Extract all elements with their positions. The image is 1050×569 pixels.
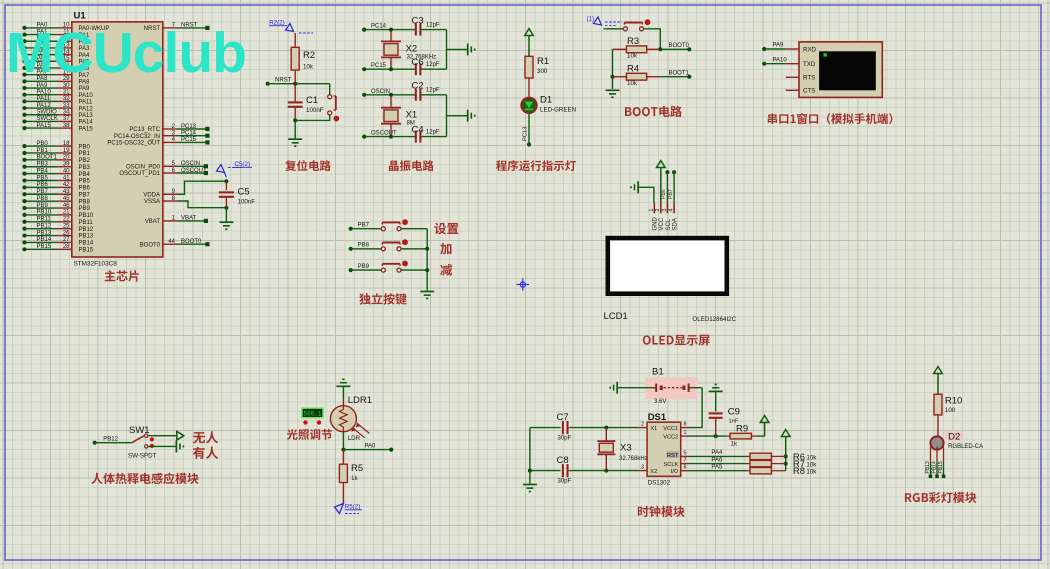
svg-text:19: 19 (63, 148, 70, 154)
svg-text:PB4: PB4 (79, 172, 91, 178)
resistor R10 100 (934, 394, 962, 415)
svg-text:10k: 10k (806, 454, 817, 461)
svg-text:PC13_RTC: PC13_RTC (129, 127, 160, 133)
label 减 (440, 264, 452, 276)
svg-text:PA12: PA12 (37, 103, 52, 109)
svg-text:CTS: CTS (803, 88, 815, 95)
svg-text:30pF: 30pF (558, 479, 572, 485)
svg-text:R1: R1 (537, 56, 549, 67)
wire keys ground rail (425, 229, 429, 291)
crystal X2 32.768KHz (381, 28, 436, 72)
svg-text:(1): (1) (587, 16, 595, 23)
svg-text:44: 44 (168, 239, 175, 245)
svg-text:OSCOUT_PD1: OSCOUT_PD1 (119, 171, 160, 177)
svg-text:SWDIO: SWDIO (37, 110, 58, 116)
OLED pin stubs 1-4 (649, 203, 675, 214)
key button PB8 (381, 240, 407, 251)
svg-text:DS1302: DS1302 (648, 480, 671, 487)
svg-text:PB0: PB0 (37, 141, 49, 147)
svg-text:R5: R5 (351, 463, 363, 474)
power symbol OLED VCC (657, 161, 666, 203)
svg-text:5: 5 (684, 450, 687, 456)
OLED pin labels GND VCC SCL SDA (653, 217, 679, 231)
svg-text:PB1: PB1 (37, 148, 49, 154)
LDR value display (302, 408, 323, 418)
svg-text:39: 39 (63, 162, 70, 168)
capacitor C1 100nF (288, 95, 324, 114)
svg-text:40: 40 (63, 168, 70, 174)
LED D1 LED-GREEN (521, 95, 576, 114)
svg-text:PA15: PA15 (79, 126, 94, 132)
svg-text:PB7: PB7 (79, 192, 91, 198)
wire OLED SDA (668, 170, 676, 203)
svg-text:22: 22 (63, 217, 70, 223)
svg-text:PB15: PB15 (79, 248, 94, 254)
svg-text:C3: C3 (412, 15, 424, 26)
key button PB9 (381, 261, 407, 272)
svg-text:B1: B1 (652, 367, 664, 378)
svg-text:PB14: PB14 (932, 461, 938, 473)
wire PA15 to U1 pin 38 (22, 123, 93, 132)
svg-text:PB5: PB5 (79, 179, 91, 185)
svg-text:32: 32 (63, 96, 70, 102)
wire R1 to D1 (528, 78, 530, 98)
svg-text:12pF: 12pF (426, 88, 440, 94)
svg-text:PB6: PB6 (37, 182, 49, 188)
svg-text:PA10: PA10 (79, 93, 94, 99)
svg-text:LDR1: LDR1 (348, 395, 372, 406)
svg-text:PB7: PB7 (37, 189, 49, 195)
wire PA3 to U1 pin 13 (22, 43, 90, 52)
wire PB4 to U1 pin 40 (22, 168, 90, 177)
wire PB9 to key (349, 264, 382, 272)
wire OSCIN row (362, 89, 446, 97)
resistor R6 10k (747, 452, 818, 463)
wire key PB7 to rail (401, 228, 427, 230)
svg-text:PB15: PB15 (938, 461, 944, 473)
svg-text:PB1: PB1 (79, 151, 91, 157)
svg-text:10k: 10k (806, 462, 817, 469)
svg-text:SW-SPDT: SW-SPDT (128, 453, 157, 460)
svg-text:C5: C5 (238, 187, 250, 198)
DS1 pin 1 wire VCC2 (681, 430, 727, 438)
svg-text:PB7: PB7 (668, 189, 674, 199)
svg-text:28: 28 (63, 244, 70, 250)
wire PA10 to U1 pin 31 (22, 90, 93, 99)
svg-text:C1: C1 (306, 95, 318, 106)
svg-text:42: 42 (63, 182, 70, 188)
wire R10 to D2 (937, 415, 939, 437)
LDR LDR1 (330, 395, 372, 442)
label 设置 (434, 223, 458, 235)
capacitor C9 1nF (709, 391, 740, 436)
label 复位电路 (285, 160, 331, 171)
BOOT button (623, 20, 649, 31)
svg-text:2: 2 (655, 209, 661, 212)
label 加 (440, 243, 451, 255)
capacitor C6 12pF (412, 57, 440, 75)
svg-text:7: 7 (684, 458, 687, 464)
svg-text:PB8: PB8 (79, 199, 91, 205)
svg-text:10k: 10k (806, 469, 817, 476)
wire NRST node across (268, 82, 330, 86)
wire PC15 row (362, 63, 446, 71)
svg-text:10k: 10k (627, 53, 638, 60)
power symbol LED (525, 29, 534, 57)
svg-text:PB13: PB13 (79, 234, 94, 240)
svg-text:21: 21 (63, 210, 70, 216)
power symbol 无人 (177, 431, 184, 440)
svg-text:R8: R8 (793, 466, 805, 477)
battery B1 3.6V (617, 367, 702, 406)
wire PB0 to U1 pin 18 (22, 141, 90, 150)
wire SW1 bottom throw to ground (148, 445, 176, 447)
svg-text:PC14: PC14 (371, 24, 387, 30)
svg-text:6: 6 (684, 465, 687, 471)
wire NRST to U1 pin 7 (144, 23, 210, 32)
svg-text:100: 100 (945, 407, 956, 414)
svg-text:VDDA: VDDA (143, 193, 160, 199)
svg-text:STM32F103C8: STM32F103C8 (74, 261, 118, 268)
svg-text:32.768kHz: 32.768kHz (619, 456, 648, 462)
svg-text:PB13: PB13 (925, 461, 931, 473)
wire PA9 to RXD (762, 43, 799, 51)
wire C8 to DS1 X2 (570, 469, 638, 473)
svg-text:27: 27 (63, 237, 70, 243)
wire left rail BOOT (611, 49, 615, 89)
chip DS1 DS1302 (647, 412, 681, 487)
wire PB8 to U1 pin 45 (22, 196, 90, 205)
svg-text:LCD1: LCD1 (604, 311, 628, 322)
svg-text:R9: R9 (736, 424, 748, 435)
svg-text:PA10: PA10 (773, 57, 788, 63)
svg-text:26: 26 (63, 230, 70, 236)
wire PB7 to key (349, 222, 382, 230)
svg-text:X1: X1 (650, 426, 657, 432)
wire PC13 to U1 pin 2 (129, 124, 209, 133)
OLED display LCD1 (604, 238, 737, 323)
svg-text:PB5: PB5 (37, 175, 49, 181)
wire PB6 to U1 pin 42 (22, 182, 90, 191)
svg-text:33: 33 (63, 103, 70, 109)
wire PA6 to U1 pin 16 (22, 63, 90, 72)
wire C7 to DS1 X1 (570, 426, 638, 430)
wire PA2 to U1 pin 12 (22, 36, 90, 45)
svg-text:R4: R4 (627, 64, 639, 75)
wire ground to LDR1 (342, 386, 344, 405)
svg-text:VBAT: VBAT (181, 216, 197, 222)
capacitor C4 12pF (412, 125, 440, 143)
svg-text:PC14: PC14 (181, 131, 197, 137)
svg-text:PA12: PA12 (79, 106, 94, 112)
svg-text:506.1: 506.1 (303, 411, 321, 418)
ground keys (420, 292, 434, 299)
crystal X1 8M (381, 93, 417, 139)
label 串口1窗口（模拟手机端） (768, 113, 893, 124)
svg-text:VCC: VCC (659, 217, 665, 230)
wire probe to R2 top (294, 33, 296, 47)
svg-text:C9: C9 (728, 407, 740, 418)
wire OLED SCL (661, 170, 669, 203)
svg-text:25: 25 (63, 223, 70, 229)
key button PB7 (381, 220, 407, 231)
wire OSCOUT row (362, 131, 446, 139)
svg-text:43: 43 (63, 189, 70, 195)
svg-text:PA14: PA14 (79, 120, 94, 126)
svg-text:3: 3 (662, 209, 668, 212)
capacitor C3 12pF (412, 15, 440, 35)
wire BOOT button to R3 node (644, 29, 661, 50)
wire SW1 top throw to power (148, 435, 177, 437)
svg-text:41: 41 (63, 175, 70, 181)
svg-text:VCC1: VCC1 (663, 426, 678, 432)
voltage probe C5(2) (217, 161, 253, 178)
svg-text:PA5: PA5 (711, 465, 723, 471)
wire C1 bottom to ground node (293, 107, 297, 123)
wire C5 bottom node to ground (225, 208, 227, 222)
power symbol RGB (934, 367, 943, 395)
svg-text:PB9: PB9 (79, 206, 91, 212)
resistor R5 1k (339, 463, 363, 483)
RGB LED D2 RGBLED-CA (930, 431, 983, 451)
wire C1 node to ground (294, 120, 296, 138)
svg-text:NRST: NRST (275, 78, 292, 84)
svg-text:PA10: PA10 (37, 90, 52, 96)
svg-text:TXD: TXD (803, 61, 816, 68)
svg-text:38: 38 (63, 123, 70, 129)
svg-text:45: 45 (63, 196, 70, 202)
wire PB3 to U1 pin 39 (22, 162, 90, 171)
svg-text:12pF: 12pF (426, 129, 440, 135)
svg-text:C7: C7 (557, 412, 569, 423)
ground 有人 (176, 440, 183, 452)
svg-text:PA11: PA11 (79, 100, 93, 106)
voltage probe R5(2) (335, 504, 363, 514)
svg-text:PA4: PA4 (711, 450, 723, 456)
svg-text:PC15-OSC32_OUT: PC15-OSC32_OUT (107, 141, 160, 147)
reset button (328, 95, 339, 121)
ground reset circuit (288, 139, 302, 146)
svg-text:PA0: PA0 (365, 443, 377, 449)
svg-text:PA13: PA13 (79, 113, 94, 119)
svg-text:300: 300 (537, 68, 548, 75)
svg-text:C8: C8 (557, 455, 569, 466)
DS1 pin 2 stub (638, 422, 647, 428)
wire PC15 to U1 pin 4 (107, 137, 209, 146)
svg-text:PB12: PB12 (79, 227, 94, 233)
svg-text:D2: D2 (948, 431, 960, 442)
wire PC14 row (362, 24, 446, 32)
wire R9 to power (757, 435, 765, 437)
svg-text:1k: 1k (351, 475, 358, 482)
wire PB7 to U1 pin 43 (22, 189, 90, 198)
resistor R3 10k (613, 36, 661, 60)
svg-text:BOOT0: BOOT0 (140, 242, 161, 248)
resistor R8 10k (747, 466, 818, 477)
svg-text:PB0: PB0 (79, 144, 91, 150)
svg-text:C2: C2 (412, 81, 424, 92)
svg-text:BOOT1: BOOT1 (37, 155, 58, 161)
node NRST (266, 78, 292, 86)
svg-text:VBAT: VBAT (145, 219, 161, 225)
svg-text:DS1: DS1 (648, 412, 667, 423)
svg-text:PB10: PB10 (79, 213, 94, 219)
capacitor C8 30pF (530, 455, 572, 485)
svg-text:3: 3 (641, 465, 644, 471)
wire PA5 to U1 pin 15 (22, 56, 90, 65)
wire PB5 to U1 pin 41 (22, 175, 90, 184)
svg-text:37: 37 (63, 116, 70, 122)
wire right rail X1 (447, 95, 468, 137)
svg-text:PC15: PC15 (371, 63, 387, 69)
wire PB9 to U1 pin 46 (22, 203, 90, 212)
wire PB11 to U1 pin 22 (22, 217, 93, 226)
svg-text:LED-GREEN: LED-GREEN (540, 107, 576, 114)
power symbol pullups (781, 430, 790, 457)
capacitor C7 30pF (530, 412, 572, 442)
svg-text:PA9: PA9 (773, 43, 785, 49)
svg-text:32.768KHz: 32.768KHz (407, 54, 437, 60)
svg-text:PB11: PB11 (37, 217, 52, 223)
svg-text:12pF: 12pF (426, 22, 440, 28)
wire PA10 to TXD (762, 57, 799, 65)
svg-text:100nF: 100nF (238, 199, 256, 206)
svg-text:PB9: PB9 (358, 264, 370, 270)
ground BOOT circuit (606, 90, 620, 97)
wire PA4 to U1 pin 14 (22, 49, 90, 58)
label 主芯片 (105, 270, 139, 281)
crystal X3 32.768kHz (597, 428, 647, 471)
wire PA7 to U1 pin 17 (22, 69, 90, 78)
svg-text:RGBLED-CA: RGBLED-CA (948, 444, 983, 450)
svg-text:PC13: PC13 (523, 126, 529, 141)
svg-text:PB10: PB10 (37, 210, 52, 216)
svg-text:U1: U1 (74, 11, 87, 22)
svg-text:1: 1 (684, 430, 687, 436)
svg-text:PB13: PB13 (37, 230, 52, 236)
wire PA9 to U1 pin 30 (22, 83, 90, 92)
wire D1 to PC13 terminal (523, 113, 532, 147)
wire SWCLK to U1 pin 37 (22, 116, 93, 125)
switch SW1 SW-SPDT (128, 425, 157, 460)
wire PB8 to key (349, 243, 382, 251)
svg-text:PB3: PB3 (79, 165, 91, 171)
svg-text:PB8: PB8 (37, 196, 49, 202)
svg-text:X2: X2 (650, 469, 657, 475)
DS1 pin 3 stub (638, 465, 647, 471)
wire DS1 SCLK PA6 (681, 457, 747, 463)
svg-text:GND: GND (653, 217, 659, 231)
svg-text:BOOT1: BOOT1 (669, 70, 690, 76)
label 程序运行指示灯 (496, 160, 576, 171)
svg-text:BOOT0: BOOT0 (669, 43, 690, 49)
svg-text:OSCOUT: OSCOUT (181, 168, 207, 174)
svg-text:PB14: PB14 (79, 241, 94, 247)
wire PA8 to U1 pin 29 (22, 76, 90, 85)
power symbol R9 (760, 416, 769, 437)
ground clock left rail (523, 485, 537, 492)
label 独立按键 (359, 293, 407, 305)
svg-text:PA15: PA15 (37, 123, 52, 129)
svg-text:X3: X3 (620, 443, 632, 454)
svg-text:31: 31 (63, 90, 70, 96)
label 人体热释电感应模块 (91, 473, 198, 485)
svg-text:1: 1 (649, 209, 655, 212)
svg-text:8M: 8M (407, 121, 415, 127)
svg-text:PB2: PB2 (79, 158, 91, 164)
svg-text:D1: D1 (540, 95, 552, 106)
svg-text:SCLK: SCLK (664, 462, 679, 468)
wire OLED GND (638, 187, 654, 202)
svg-text:PB12: PB12 (37, 223, 52, 229)
label OLED显示屏 (643, 335, 710, 346)
svg-text:VCC2: VCC2 (663, 434, 678, 440)
wire right rail X2 (447, 30, 468, 70)
svg-text:PA9: PA9 (79, 86, 91, 92)
wire PB12 to SW1 (93, 436, 132, 444)
svg-text:OLED12864I2C: OLED12864I2C (692, 316, 736, 323)
svg-text:PB15: PB15 (37, 244, 52, 250)
svg-text:SW1: SW1 (129, 425, 150, 436)
RGB LED legs PB13 PB14 PB15 (925, 447, 945, 479)
svg-text:PB12: PB12 (103, 436, 118, 442)
svg-text:2: 2 (641, 422, 644, 428)
svg-text:OSCIN: OSCIN (371, 89, 390, 95)
wire BOOT1 to U1 pin 20 (22, 155, 90, 164)
wire probe to BOOT button (604, 28, 624, 30)
svg-text:I/O: I/O (671, 469, 679, 475)
label 晶振电路 (389, 160, 434, 171)
voltage probe (1) (587, 16, 623, 26)
wire PC14 to U1 pin 3 (114, 131, 210, 140)
svg-text:RTS: RTS (803, 75, 815, 82)
ground X2 rail (468, 43, 475, 55)
ground battery left (610, 382, 617, 394)
pin RTS stub (786, 76, 799, 78)
label 无人 (193, 431, 218, 443)
svg-text:X1: X1 (406, 110, 418, 121)
wire node to R5 (342, 450, 344, 465)
label RGB彩灯模块 (905, 492, 977, 503)
watermark MCUclub (6, 21, 246, 85)
wire NRST node down to C1 (294, 84, 296, 103)
wire PA11 to U1 pin 32 (22, 96, 93, 105)
svg-text:PC15: PC15 (181, 137, 197, 143)
wire SWDIO to U1 pin 34 (22, 110, 93, 119)
wire DS1 RST PA4 (681, 450, 747, 456)
wire PA0 to U1 pin 10 (22, 23, 109, 32)
wire PB13 to U1 pin 26 (22, 230, 93, 239)
wire OSCOUT to U1 pin 6 (119, 168, 208, 177)
wire PB14 to U1 pin 27 (22, 237, 93, 246)
wire PB10 to U1 pin 21 (22, 210, 93, 219)
ground below C5 (219, 222, 233, 229)
svg-text:PB6: PB6 (661, 189, 667, 199)
wire pullup rail (784, 454, 788, 470)
ground OLED GND pin (631, 181, 638, 193)
voltage probe R2(2) (269, 20, 313, 34)
wire R3 to BOOT0 (658, 43, 691, 51)
wire PA1 to U1 pin 11 (22, 29, 90, 38)
label 光照调节 (287, 429, 332, 440)
chip U1 STM32F103C8 (72, 11, 163, 268)
wire LDR1 to PA0 node (341, 432, 345, 452)
svg-text:R2: R2 (303, 50, 315, 61)
svg-text:RXD: RXD (803, 46, 817, 53)
wire OSCIN to U1 pin 5 (126, 161, 208, 170)
svg-text:OSCIN_PD0: OSCIN_PD0 (126, 165, 161, 171)
wire U1 pin 8 VSSA to node C5 bottom (144, 196, 228, 210)
